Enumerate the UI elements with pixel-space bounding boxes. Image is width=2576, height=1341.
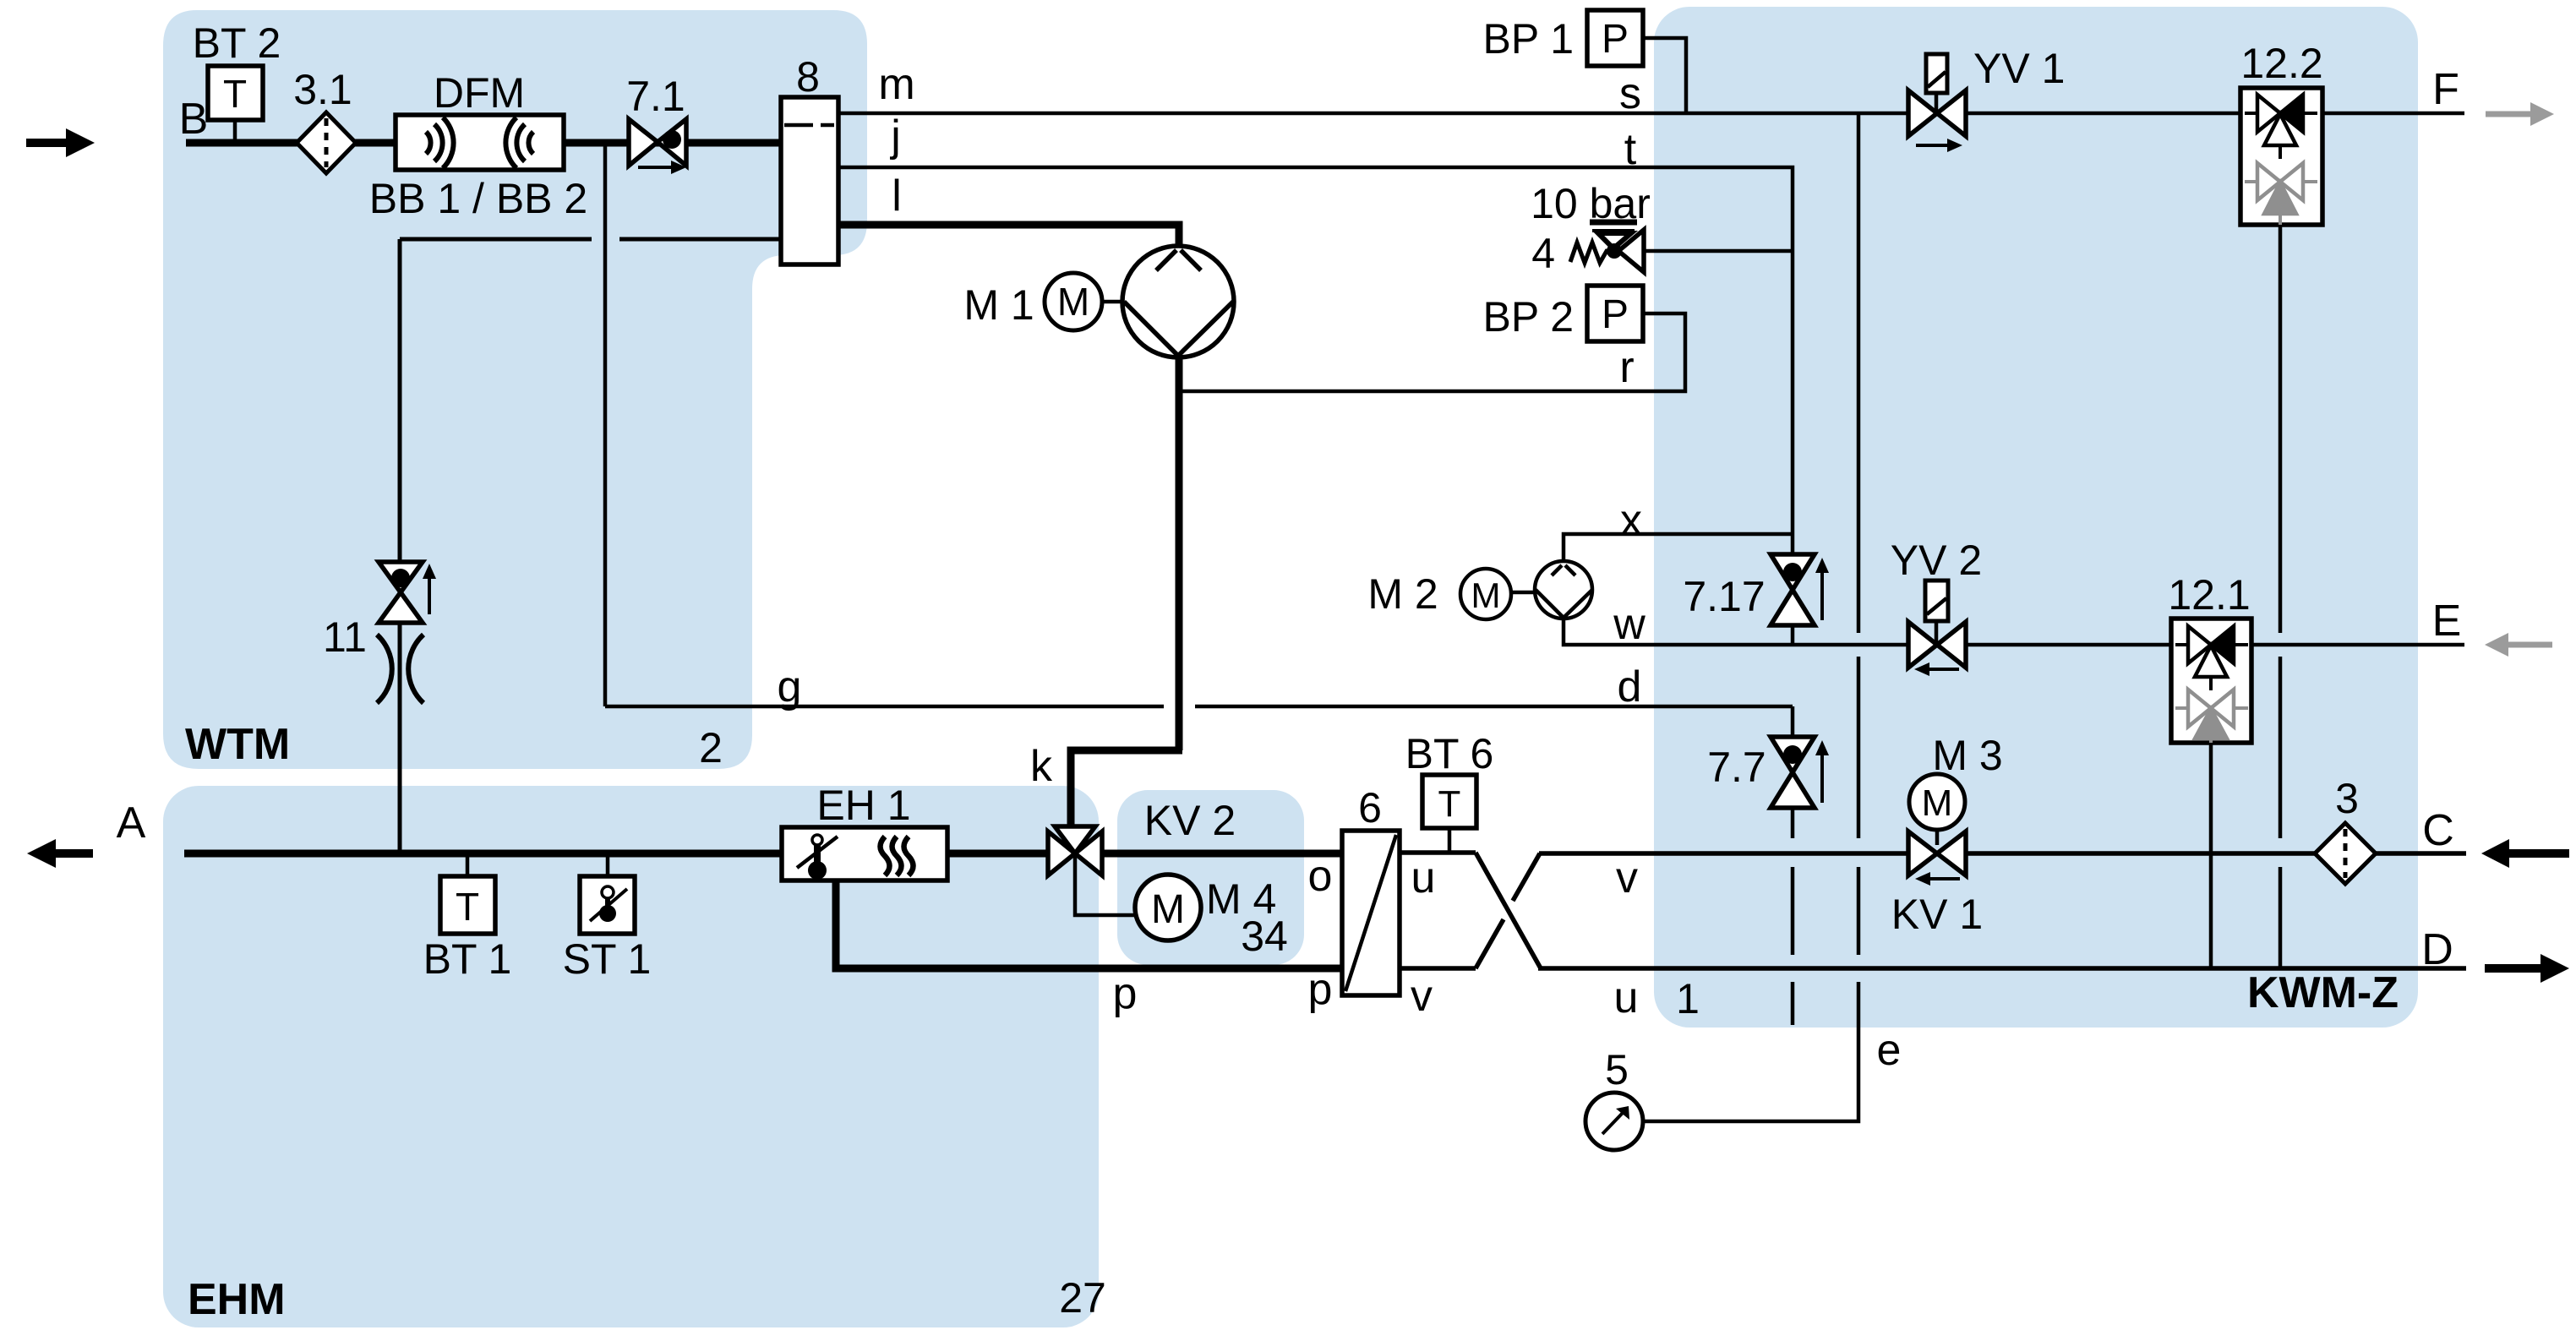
wire KV2 to heat exchanger port o: [1102, 850, 1342, 858]
wire 12.1 drop to C and D: [2209, 743, 2213, 968]
svg-text:BP 1: BP 1: [1483, 15, 1575, 63]
svg-text:YV 1: YV 1: [1973, 45, 2065, 92]
svg-text:g: g: [778, 662, 802, 711]
temperature sensor BT2: [208, 66, 263, 141]
svg-text:d: d: [1618, 662, 1642, 711]
svg-text:w: w: [1613, 600, 1645, 649]
WTM module background region: [163, 10, 867, 769]
svg-text:M: M: [1057, 280, 1089, 324]
wire A return line: [184, 850, 782, 858]
wire 12.1 to E exit: [2249, 643, 2464, 647]
EHM module background region: [163, 786, 1099, 1327]
svg-text:s: s: [1619, 69, 1641, 118]
svg-text:P: P: [1602, 292, 1629, 337]
svg-text:1: 1: [1676, 975, 1700, 1022]
wire YV2 to 12.1: [1966, 643, 2174, 647]
check valve unit 12.2: [2240, 88, 2322, 225]
wire B supply line: [186, 139, 781, 147]
svg-text:t: t: [1624, 125, 1637, 174]
flexible joint symbol below valve 11: [377, 635, 423, 703]
svg-text:EHM: EHM: [188, 1275, 286, 1324]
svg-text:4: 4: [1531, 230, 1555, 277]
svg-text:7.1: 7.1: [626, 73, 685, 120]
inlet arrow B: [26, 128, 95, 157]
svg-text:KWM-Z: KWM-Z: [2247, 968, 2399, 1017]
wire C line KV1 to filter: [1965, 851, 2317, 856]
wire D line: [1538, 966, 2466, 971]
wire j t line: [838, 167, 1793, 554]
safety thermostat ST1: [580, 857, 635, 934]
outlet arrow A: [27, 839, 93, 868]
wire g d line: [605, 143, 1793, 706]
pump M2: [1535, 561, 1592, 619]
pressure sensor BP1: [1587, 10, 1643, 66]
svg-text:12.2: 12.2: [2240, 40, 2322, 87]
pressure gauge 5: [1585, 1093, 1643, 1150]
wire crossover u diagonal: [1476, 853, 1541, 968]
svg-text:KV 2: KV 2: [1144, 797, 1236, 844]
safety valve 4: [1570, 222, 1644, 272]
svg-text:r: r: [1619, 343, 1634, 392]
svg-text:3: 3: [2335, 775, 2359, 822]
svg-text:6: 6: [1358, 784, 1382, 831]
wire hx v stub: [1400, 966, 1476, 971]
svg-text:ST 1: ST 1: [563, 935, 652, 983]
wire d drop to valve 7.7: [1791, 706, 1795, 737]
svg-text:EH 1: EH 1: [816, 782, 910, 829]
svg-text:l: l: [892, 172, 902, 221]
svg-text:C: C: [2422, 806, 2454, 855]
svg-text:7.17: 7.17: [1683, 573, 1765, 620]
filter 3.1: [297, 112, 356, 173]
svg-text:B: B: [179, 95, 209, 144]
wire pump M1 down leg: [1176, 357, 1183, 750]
svg-text:KV 1: KV 1: [1891, 891, 1983, 938]
wire l line thick: [838, 225, 1179, 247]
flow meter DFM BB1/BB2: [396, 115, 564, 170]
valve 7.7: [1771, 737, 1829, 808]
svg-text:u: u: [1411, 853, 1436, 902]
wire C line left part: [1539, 851, 1909, 856]
outlet arrow D black: [2485, 954, 2569, 983]
wire vertical to valve 11: [398, 239, 402, 563]
svg-text:3.1: 3.1: [293, 66, 352, 113]
wire s vertical from m line: [1857, 113, 1861, 633]
wire 12.2 drop upper: [2279, 225, 2283, 633]
svg-text:5: 5: [1605, 1046, 1629, 1093]
svg-text:F: F: [2432, 65, 2459, 114]
svg-text:A: A: [117, 799, 146, 848]
svg-text:p: p: [1113, 969, 1138, 1018]
temperature sensor BT6: [1422, 775, 1476, 851]
wire p return from EH1: [836, 880, 1342, 968]
wire EH1 to KV2: [947, 850, 1048, 858]
svg-text:BT 6: BT 6: [1405, 730, 1494, 777]
svg-text:BT 1: BT 1: [423, 935, 512, 983]
svg-text:M: M: [1471, 575, 1501, 615]
svg-text:BP 2: BP 2: [1483, 293, 1575, 341]
svg-text:YV 2: YV 2: [1891, 537, 1982, 584]
svg-text:12.1: 12.1: [2168, 571, 2250, 619]
svg-text:2: 2: [699, 724, 723, 771]
KV2/M4 background region: [1117, 790, 1304, 965]
svg-text:T: T: [456, 885, 479, 929]
svg-text:E: E: [2432, 597, 2462, 646]
valve KV1: [1908, 831, 1966, 886]
svg-text:k: k: [1030, 742, 1053, 791]
wire line 11 to tank 8: [400, 237, 781, 242]
valve KV2 three way: [1048, 826, 1102, 875]
motor M1: [1045, 273, 1124, 330]
wire safety valve 4 outlet: [1643, 249, 1793, 253]
wire x2121 segment between C and D: [1791, 867, 1795, 955]
wire e line to gauge: [1642, 982, 1858, 1121]
svg-text:v: v: [1616, 853, 1638, 902]
motor M3: [1909, 774, 1965, 845]
wire valve 7.17 to w line: [1791, 625, 1795, 645]
wire s vertical segment C to D: [1857, 867, 1861, 955]
solenoid valve YV1: [1908, 54, 1966, 152]
svg-text:BT 2: BT 2: [193, 19, 281, 67]
wire 12.2 drop segment E to C: [2279, 657, 2283, 838]
svg-text:DFM: DFM: [434, 69, 525, 117]
wire x2121 segment below D: [1791, 982, 1795, 1025]
KWM-Z module background region: [1654, 7, 2418, 1028]
wire valve 11 to A line: [398, 622, 402, 851]
motor M2: [1460, 569, 1535, 619]
svg-text:p: p: [1308, 965, 1333, 1014]
pressure sensor BP2: [1587, 286, 1643, 341]
svg-text:j: j: [889, 112, 901, 161]
svg-text:7.7: 7.7: [1707, 744, 1766, 791]
outlet arrow F gray: [2486, 102, 2554, 126]
inlet arrow E gray: [2485, 633, 2552, 657]
solenoid valve YV2: [1908, 581, 1966, 676]
check valve unit 12.1: [2171, 619, 2251, 743]
wire crossover v diagonal lower: [1476, 919, 1504, 968]
svg-text:o: o: [1308, 852, 1333, 901]
svg-text:11: 11: [323, 613, 367, 661]
svg-text:P: P: [1602, 17, 1629, 62]
svg-text:e: e: [1877, 1026, 1902, 1075]
svg-text:BB 1 / BB 2: BB 1 / BB 2: [369, 175, 587, 222]
inlet arrow C black: [2481, 839, 2569, 868]
svg-text:M: M: [1922, 782, 1953, 824]
svg-text:m: m: [878, 60, 914, 109]
temperature sensor BT1: [440, 857, 495, 934]
valve 7.1: [629, 119, 686, 174]
filter 3: [2315, 823, 2376, 884]
heater EH1: [782, 827, 947, 880]
pump M1: [1122, 246, 1234, 357]
svg-text:M: M: [1151, 887, 1185, 932]
wire valve 7.7 lower stub: [1791, 808, 1795, 838]
svg-text:T: T: [1438, 783, 1461, 825]
wire w line: [1564, 617, 1913, 645]
heat exchanger 6: [1342, 831, 1400, 995]
svg-text:M 1: M 1: [963, 281, 1034, 329]
wire r line from pump to BP2: [1182, 313, 1685, 391]
svg-text:D: D: [2421, 925, 2453, 974]
motor M4: [1075, 855, 1201, 940]
svg-text:8: 8: [796, 53, 820, 101]
wire crossover v diagonal upper: [1513, 853, 1540, 901]
svg-text:34: 34: [1241, 913, 1288, 960]
svg-text:M 3: M 3: [1932, 732, 2002, 779]
wire x line: [1564, 534, 1793, 563]
valve 7.17: [1771, 554, 1829, 625]
svg-text:27: 27: [1059, 1274, 1106, 1322]
wire k jog to KV2: [1071, 750, 1182, 827]
wire BP1 drop: [1642, 38, 1686, 113]
wire hx u stub: [1400, 850, 1476, 855]
wire s vertical segment w to C: [1857, 657, 1861, 838]
svg-text:10 bar: 10 bar: [1531, 180, 1651, 227]
svg-text:WTM: WTM: [185, 720, 290, 769]
wire m line: [838, 112, 2464, 116]
svg-text:T: T: [223, 72, 247, 116]
svg-text:x: x: [1620, 496, 1642, 545]
wire 12.2 drop segment C to D: [2279, 867, 2283, 968]
svg-text:u: u: [1614, 973, 1639, 1022]
svg-text:M 2: M 2: [1367, 570, 1438, 618]
valve 11: [379, 562, 436, 623]
wire C line filter to exit: [2374, 851, 2466, 856]
tank 8: [781, 97, 838, 264]
svg-text:v: v: [1411, 972, 1433, 1021]
